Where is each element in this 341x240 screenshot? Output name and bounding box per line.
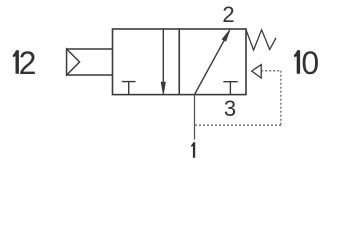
blocked port T (right box) <box>223 82 237 95</box>
svg-text:3: 3 <box>224 96 236 121</box>
dashed pilot control line: horizontal from pilot triangle <box>261 70 281 72</box>
diagonal arrow (flow path 1-2) in right box <box>195 33 229 95</box>
pilot actuator 12 (rectangle open to body) <box>67 49 113 75</box>
label 12 <box>13 50 19 74</box>
svg-text:2: 2 <box>222 2 234 27</box>
blocked port T (left box) <box>122 82 136 95</box>
label 10 <box>294 50 300 74</box>
dashed pilot control line: vertical segment <box>280 71 282 125</box>
label 1 <box>191 142 195 158</box>
pilot triangle (right, port 10) <box>252 65 262 78</box>
svg-text:2: 2 <box>19 45 37 81</box>
valve body (two position boxes) <box>113 29 247 95</box>
dashed pilot control line: bottom horizontal to port 1 line <box>195 124 281 126</box>
return spring <box>246 30 276 50</box>
arrow (flow path 2-3) in left box <box>162 29 164 84</box>
svg-text:0: 0 <box>301 45 319 81</box>
port 1 line <box>194 95 196 140</box>
divider between position boxes <box>178 29 180 95</box>
pneumatic pilot triangle (left) <box>67 49 80 75</box>
